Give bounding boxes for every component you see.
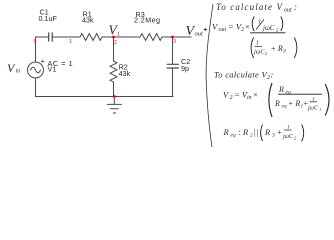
svg-text:To calculate V: To calculate V <box>216 2 283 12</box>
svg-text:+ R: + R <box>288 99 300 108</box>
note line: V2 = Vin x <box>223 90 258 102</box>
svg-text:1: 1 <box>69 39 72 45</box>
svg-text:in: in <box>247 95 252 101</box>
junction dot node 2 <box>112 36 115 39</box>
svg-text:R: R <box>223 127 230 137</box>
svg-text:R: R <box>264 127 271 137</box>
wire R2 to bottom <box>113 82 115 97</box>
resistor R1 zigzag <box>80 34 102 41</box>
svg-text:2: 2 <box>230 95 233 101</box>
svg-text:R: R <box>274 99 280 108</box>
wire R1 to R3 (node 2) <box>102 36 140 38</box>
svg-text:||: || <box>254 127 259 137</box>
svg-text:jωC: jωC <box>253 49 265 56</box>
note line: Vout = V2 x <box>212 22 250 34</box>
resistor R2 zigzag <box>110 61 117 82</box>
svg-text:out: out <box>195 31 204 38</box>
svg-text:43k: 43k <box>119 69 131 78</box>
svg-text:3: 3 <box>173 39 176 45</box>
node label Vin handwritten <box>7 61 20 75</box>
svg-text:×: × <box>253 90 259 100</box>
svg-text:43k: 43k <box>82 15 94 24</box>
fraction bar 2 <box>278 93 322 95</box>
svg-text:3: 3 <box>282 49 286 55</box>
svg-text:2: 2 <box>114 40 117 46</box>
svg-text:out: out <box>219 27 227 33</box>
voltage source V1 circle <box>28 62 44 78</box>
junction dot node 3 <box>171 36 174 39</box>
svg-text:in: in <box>16 69 21 75</box>
svg-text::: : <box>271 70 274 80</box>
svg-text:V1: V1 <box>48 65 57 74</box>
svg-text:jωC: jωC <box>282 134 294 140</box>
note line: Req = R2||(R3 + 1/jwC2) <box>223 125 304 142</box>
wire source bottom <box>35 78 37 97</box>
svg-text:1: 1 <box>117 32 120 38</box>
fraction denominator (1/jwC2 + R3) <box>251 38 297 59</box>
svg-text::: : <box>238 127 241 137</box>
node label Vout handwritten at node 3 <box>186 24 208 39</box>
fraction bar 1 <box>250 32 286 34</box>
capacitor C2 plates <box>167 64 178 68</box>
junction dot ground <box>113 95 116 98</box>
svg-text:R: R <box>242 127 249 137</box>
ground symbol <box>107 97 121 114</box>
note line: To calculate V2: <box>214 70 274 82</box>
svg-text:To calculate V: To calculate V <box>214 70 268 80</box>
svg-text:×: × <box>245 22 251 32</box>
hand-drawn divider line <box>206 4 213 147</box>
numerator Req <box>278 85 291 96</box>
svg-text:1: 1 <box>256 41 259 47</box>
svg-text:9p: 9p <box>181 64 189 73</box>
svg-text:eq: eq <box>231 133 236 139</box>
wire R3 to output node 3 <box>162 36 191 38</box>
svg-text:0.1uF: 0.1uF <box>39 14 58 23</box>
wire bottom horizontal <box>36 96 174 98</box>
svg-text:1: 1 <box>319 107 321 112</box>
svg-text:jωC: jωC <box>262 24 275 32</box>
svg-text:1: 1 <box>287 125 290 131</box>
svg-text::: : <box>294 2 297 12</box>
wire node 2 down to R2 <box>113 37 115 61</box>
wire C2 to bottom <box>172 68 174 97</box>
svg-text:eq: eq <box>282 104 287 110</box>
svg-text:+ R: + R <box>271 44 283 53</box>
big left paren <box>269 83 272 117</box>
fraction numerator (1/jwC2) <box>252 17 283 34</box>
svg-text:+: + <box>41 57 45 66</box>
svg-text:+: + <box>277 127 283 137</box>
capacitor C1 plates <box>49 33 53 41</box>
resistor R3 zigzag <box>140 34 162 41</box>
note line: To calculate Vout: <box>216 2 297 14</box>
wire left vertical from node 6 to source <box>35 37 37 62</box>
wire node 3 down to C2 <box>172 37 174 64</box>
node label V1 handwritten at node 2 <box>109 23 121 38</box>
svg-text:out: out <box>284 8 292 14</box>
wire top-left horizontal to C1 <box>36 36 49 38</box>
svg-text:jωC: jωC <box>307 106 319 112</box>
big right paren <box>325 84 329 116</box>
denominator Req + R1 + 1/jwC1 <box>274 97 321 113</box>
sine wave inside V1 <box>31 67 41 73</box>
svg-text:2.2Meg: 2.2Meg <box>134 16 160 25</box>
svg-text:R: R <box>278 85 284 94</box>
svg-text:6: 6 <box>34 39 37 45</box>
wire C1 to R1 <box>52 36 80 38</box>
svg-text:3: 3 <box>271 133 275 139</box>
